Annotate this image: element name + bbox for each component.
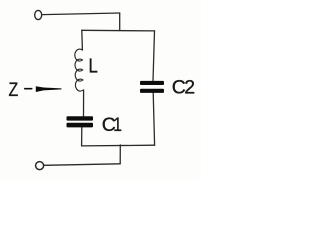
wire left branch lower	[81, 127, 83, 145]
terminal bottom-left	[36, 162, 44, 170]
arrow head	[36, 86, 62, 92]
capacitor C1 plate bottom	[67, 123, 94, 128]
capacitor C2 plate top	[140, 81, 164, 85]
wire bottom horizontal	[44, 164, 120, 166]
wire right branch lower	[153, 93, 154, 145]
capacitor C1 plate top	[67, 116, 94, 120]
svg-text:Z: Z	[9, 78, 19, 100]
wire right branch upper	[153, 31, 155, 81]
wire left branch middle	[83, 90, 85, 116]
svg-text:L: L	[89, 54, 98, 77]
wire top junction vertical	[119, 13, 121, 31]
terminal top-left	[35, 10, 42, 19]
inductor L	[75, 49, 83, 91]
wire bottom junction vertical	[119, 145, 121, 164]
wire bottom rail	[82, 144, 155, 147]
arrow dash	[24, 88, 33, 90]
svg-text:2: 2	[184, 77, 195, 99]
svg-text:1: 1	[113, 113, 122, 135]
wire left branch upper	[81, 30, 84, 50]
wire top horizontal	[43, 13, 120, 15]
capacitor C2 plate bottom	[140, 89, 164, 93]
wire top rail	[82, 29, 155, 32]
